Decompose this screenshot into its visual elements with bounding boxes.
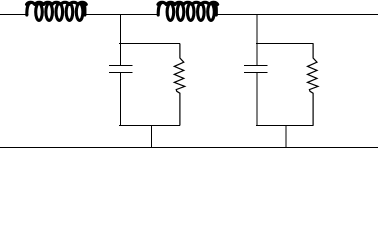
wire: C1 bottom lead [120,73,122,126]
wire: tank2 bottom bar [256,125,314,127]
capacitor C2 bottom plate [244,72,268,74]
capacitor C2 top plate [244,65,268,67]
wire: tank1 ground stub [150,126,152,148]
wire: between inductors [85,14,159,16]
inductor L1 [27,2,87,20]
capacitor C1 top plate [109,65,133,67]
resistor R2 [308,44,319,126]
inductor L2 [158,2,218,20]
wire: top-right lead [216,14,378,16]
wire: tank2 top bar [256,43,314,45]
wire: vertical from top wire to C2 [256,15,258,66]
capacitor C1 bottom plate [109,72,133,74]
wire: tank2 ground stub [285,126,287,148]
wire: ground rail [0,147,378,149]
wire: tank1 top bar [119,43,180,45]
resistor R1 [174,44,185,126]
wire: vertical from top wire to C1 [120,15,122,66]
wire: top-left lead [0,14,29,16]
wire: tank1 bottom bar [119,125,180,127]
wire: C2 bottom lead [256,73,258,126]
